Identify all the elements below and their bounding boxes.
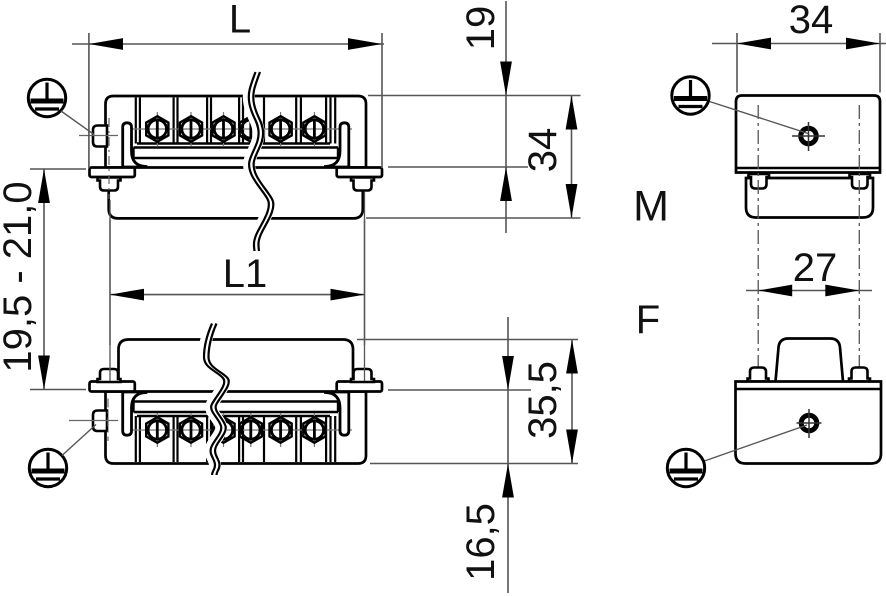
terminal screw at x=223.5: [212, 413, 234, 447]
female left mounting foot: [90, 382, 135, 392]
female left clamp bracket: [123, 392, 146, 435]
male right foot screw bump: [351, 178, 374, 191]
male right mounting foot: [337, 168, 382, 178]
arrowhead 34 down: [566, 184, 578, 218]
male hex terminal screws: [146, 112, 325, 146]
terminal screw at x=280.6: [270, 413, 292, 447]
arrowhead 27 left: [758, 285, 792, 297]
dimension line L: [72, 43, 384, 45]
svg-text:M: M: [633, 183, 669, 231]
svg-text:34: 34: [521, 128, 565, 173]
svg-text:34: 34: [789, 0, 834, 42]
dimension line vertical x=44: [43, 169, 45, 390]
arrowhead 27 right: [825, 285, 859, 297]
svg-text:F: F: [636, 298, 660, 342]
male left mounting foot: [90, 168, 135, 178]
M left screw bump (side): [749, 174, 770, 189]
male cell divider walls: [136, 98, 335, 144]
terminal screw at x=250.8: [240, 413, 262, 447]
terminal screw at x=280.6: [270, 112, 292, 146]
extension line y=95.5: [368, 95, 581, 97]
terminal screw at x=157.3: [146, 112, 168, 146]
PE leader line male view: [61, 111, 94, 135]
male PE screw bump (left edge): [93, 126, 107, 147]
F flange body: [736, 382, 882, 464]
M PE leader line: [708, 101, 808, 134]
extension line right for L: [381, 33, 383, 168]
M collar (side): [746, 178, 873, 218]
F right screw bump (side): [849, 368, 870, 382]
male screw row center line: [128, 128, 352, 130]
svg-text:35,5: 35,5: [521, 361, 565, 439]
arrowhead L right: [348, 38, 382, 50]
dimension line 27: [746, 290, 872, 292]
female PE screw center marks: [69, 399, 118, 442]
female hex terminal screws: [146, 413, 325, 447]
male insert body outline: [106, 96, 367, 168]
female mating hood: [119, 340, 354, 392]
PE earth symbol F view: [667, 449, 704, 486]
PE earth symbol M view: [672, 77, 709, 114]
male terminal cells bottom lines: [134, 144, 339, 167]
female right mounting foot: [337, 382, 382, 392]
M flange inner bottom line: [736, 167, 880, 169]
dimension line 19 vertical: [505, 1, 507, 233]
extension line right: [879, 33, 881, 93]
female right clamp bracket: [326, 392, 349, 435]
female terminal cells top lines: [134, 392, 339, 417]
extension line y=339: [357, 339, 578, 341]
extension line y=463.5: [370, 463, 578, 465]
arrowhead 19 up: [500, 167, 512, 201]
female screw row center line: [128, 429, 352, 431]
arrowhead 19,5-21,0 up: [38, 169, 50, 203]
male view break squiggle: [249, 72, 274, 251]
extension line y=218: [366, 217, 581, 219]
terminal screw at x=314.4: [303, 112, 325, 146]
svg-text:27: 27: [793, 246, 838, 290]
arrowhead L left: [89, 38, 123, 50]
male left foot screw bump: [98, 178, 121, 191]
PE earth symbol female view: [29, 449, 66, 486]
extension line left for L1: [109, 220, 111, 346]
svg-text:L1: L1: [223, 252, 268, 296]
extension line y=169: [30, 168, 86, 170]
extension line left for L: [88, 33, 90, 168]
male PE screw center marks: [79, 118, 118, 199]
dimension line: [712, 43, 886, 45]
M right screw bump (side): [850, 174, 871, 189]
female insert body outline: [106, 392, 367, 464]
male collar (lower body): [109, 177, 363, 218]
arrowhead 19,5-21,0 down: [38, 356, 50, 390]
male left clamp bracket: [123, 123, 146, 167]
female right foot screw bump: [351, 369, 374, 382]
svg-text:19: 19: [459, 6, 503, 51]
terminal screw at x=157.3: [146, 413, 168, 447]
F flange inner top line: [736, 388, 882, 390]
terminal screw at x=191: [180, 112, 202, 146]
svg-text:19,5 - 21,0: 19,5 - 21,0: [0, 181, 40, 372]
male right clamp bracket: [326, 123, 349, 167]
arrowhead 16,5 down: [502, 356, 514, 390]
female view break squiggle: [204, 324, 229, 476]
female PE screw bump (left edge): [93, 411, 107, 432]
extension line right for L1: [364, 220, 366, 346]
terminal screw at x=223.5: [212, 112, 234, 146]
F PE hole: [797, 415, 822, 431]
svg-text:L: L: [229, 0, 251, 42]
arrowhead 34M left: [737, 38, 771, 50]
extension line left: [736, 33, 738, 93]
M flange body: [736, 96, 880, 173]
arrowhead 34 up: [566, 96, 578, 130]
female left foot screw bump: [98, 369, 121, 382]
arrowhead 34M right: [846, 38, 880, 50]
terminal screw at x=314.4: [303, 413, 325, 447]
extension line y=390: [388, 389, 531, 391]
M PE hole: [792, 128, 825, 144]
dimension line 34 vertical: [571, 96, 573, 219]
dimension line 35,5 vertical: [571, 340, 573, 464]
female cell divider walls: [136, 416, 335, 462]
arrowhead 35,5 up: [566, 340, 578, 374]
arrowhead L1 left: [110, 289, 144, 301]
F mating hood (side): [776, 339, 844, 382]
extension line y=389.5: [30, 389, 86, 391]
extension line y=167: [388, 166, 528, 168]
PE earth symbol male view: [28, 79, 65, 116]
dimension line L1: [110, 294, 365, 296]
arrowhead 19 down: [500, 62, 512, 96]
terminal screw at x=250.8: [240, 112, 262, 146]
M screw axis center lines: [758, 105, 859, 455]
svg-text:16,5: 16,5: [459, 503, 503, 581]
dimension line 16,5 vertical: [507, 317, 509, 593]
F PE hole center line: [808, 409, 810, 438]
arrowhead L1 right: [331, 289, 365, 301]
M PE hole center line: [808, 122, 810, 151]
F PE leader line: [703, 425, 807, 462]
PE leader line female view: [62, 425, 96, 456]
bracket screw axis lines between views: [110, 192, 365, 381]
arrowhead 35,5 down: [566, 430, 578, 464]
arrowhead 16,5 up: [502, 464, 514, 498]
terminal screw at x=191: [180, 413, 202, 447]
F left screw bump (side): [748, 368, 769, 382]
